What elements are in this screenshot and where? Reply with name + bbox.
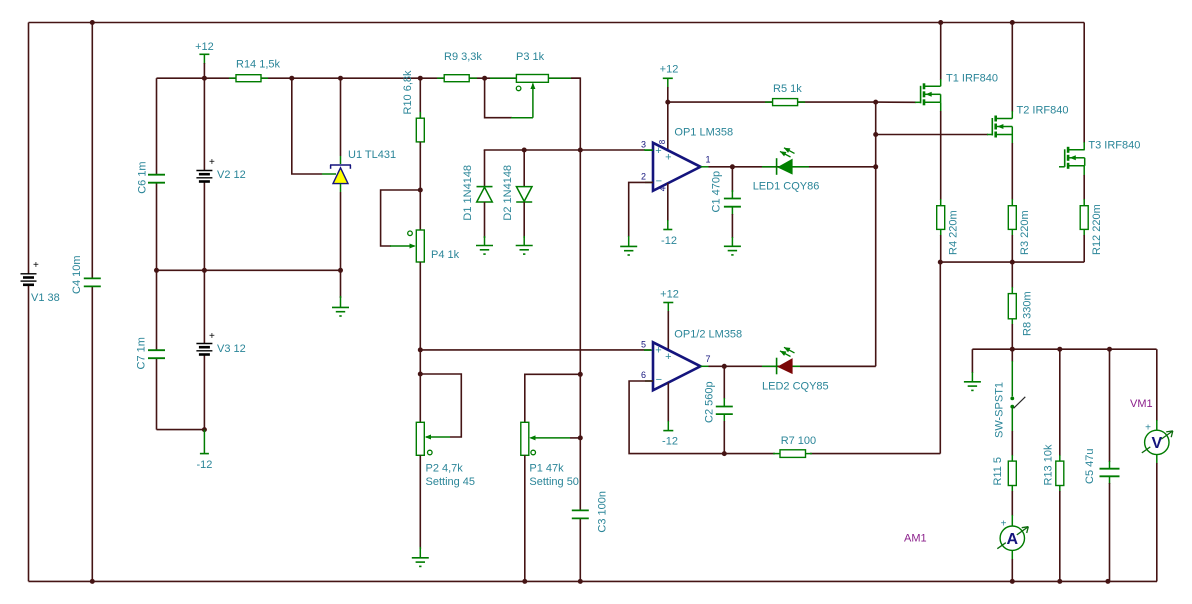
capacitor C6 1m [137,161,166,193]
svg-text:R14 1,5k: R14 1,5k [236,59,281,71]
potentiometer P3 1k [490,51,572,91]
resistor R7 100 [773,435,816,457]
wire: R13 column lower [1059,486,1061,582]
svg-text:C4 10m: C4 10m [71,255,83,294]
svg-text:LED2 CQY85: LED2 CQY85 [762,380,829,392]
svg-text:R13 10k: R13 10k [1043,444,1055,485]
svg-text:2: 2 [641,172,646,182]
wire: TL431 ref column [292,78,336,174]
capacitor C4 10m [71,255,101,294]
svg-text:R4 220m: R4 220m [948,210,960,255]
svg-text:OP1/2 LM358: OP1/2 LM358 [674,329,742,341]
capacitor C1 470p [711,171,741,213]
battery V1 38 [21,260,60,304]
transistor T1 IRF840 [921,73,998,106]
battery V3 12 [196,331,245,355]
op-amp OP1 LM358 [641,127,733,192]
svg-text:P1 47k: P1 47k [529,463,564,475]
wire: C5 column lower [1109,476,1111,581]
node: C6/C7 mid junction [154,268,159,273]
wire: D1 to ground [484,202,486,246]
node: AM1 bottom junction [1010,579,1015,584]
node: P2 wiper branch junction [418,372,423,377]
power -12 (OP1/2) [662,431,678,448]
node: D2 junction [522,148,527,153]
svg-text:8: 8 [658,139,667,144]
wire: P3 wiper loop [485,78,536,118]
node: C2 bottom junction [722,451,727,456]
node: C4 top junction [90,20,95,25]
svg-text:VM1: VM1 [1130,398,1153,410]
diode D1 1N4148 [462,165,493,221]
ground (D2) [516,246,533,255]
wire: V3 column [203,270,205,429]
node: rail C5 junction [1107,347,1112,352]
ground (output rail) [964,382,981,391]
svg-text:Setting 50: Setting 50 [529,476,579,488]
wire: R3 bottom [1011,230,1013,263]
node: T1 drain top [938,20,943,25]
svg-text:+: + [655,145,661,157]
svg-text:-12: -12 [661,235,677,247]
capacitor C3 100n [572,491,609,533]
wire: LED2 to gate bus [800,365,876,367]
node: T2 drain top [1010,20,1015,25]
svg-text:A: A [1007,531,1019,548]
wire: diode clamp line y=150 [484,150,652,186]
ground (OP1 pin2) [620,246,637,255]
wire: OP1/2 -12 lead [667,383,669,431]
node: R13 bottom junction [1057,579,1062,584]
wire: OP1 -12 lead [667,183,669,230]
wire: rail to ground [971,349,973,382]
ground (P2 bottom) [412,558,429,567]
node: gate bus top [873,100,878,105]
node: set column bottom [578,579,583,584]
wire: T1 drain up [940,23,942,87]
node: C4 bottom junction [90,579,95,584]
svg-text:+12: +12 [660,288,679,300]
resistor R4 220m [937,206,960,255]
svg-text:C6 1m: C6 1m [137,161,149,193]
wire: T1 gate lead [876,101,921,103]
svg-text:V1 38: V1 38 [31,292,60,304]
svg-text:+: + [665,351,671,363]
wire: mid rail y=270 [157,269,341,271]
resistor R10 6,8k [402,70,424,148]
label VM1 [1130,398,1153,410]
svg-text:C1 470p: C1 470p [711,171,723,213]
wire: switch to R11 [1011,431,1013,461]
node: P1 bottom junction [522,579,527,584]
svg-text:P2 4,7k: P2 4,7k [426,463,464,475]
potentiometer P2 4,7k [416,422,475,488]
wire: R5 line [668,101,876,103]
svg-text:+12: +12 [195,41,214,53]
svg-text:−: − [656,175,662,187]
svg-text:SW-SPST1: SW-SPST1 [994,382,1006,438]
ground (D1) [476,246,493,255]
svg-text:+: + [33,260,39,271]
svg-text:T3 IRF840: T3 IRF840 [1088,140,1140,152]
svg-text:+: + [655,345,661,357]
LED LED2 CQY85 [762,345,829,392]
svg-text:D2 1N4148: D2 1N4148 [502,165,514,221]
op-amp U1 TL431 shunt regulator [330,149,396,184]
wire: R4 bottom [940,230,942,263]
node: gate bus T3 [873,164,878,169]
power +12 (OP1) [660,64,679,103]
wire: T2 drain up [1011,23,1013,119]
capacitor C5 47u [1084,449,1120,484]
svg-text:R10 6,8k: R10 6,8k [402,70,414,115]
wire: pin5 line [420,349,653,351]
switch SW-SPST1 [994,349,1026,438]
label AM1 [904,533,927,545]
wire: R12 bottom [1083,230,1085,263]
potentiometer P4 1k [390,230,460,262]
svg-text:+: + [1145,423,1151,434]
svg-text:R5 1k: R5 1k [773,83,802,95]
svg-text:V3 12: V3 12 [217,343,246,355]
node: ref junction [289,76,294,81]
svg-text:+12: +12 [660,64,679,76]
svg-text:V: V [1151,435,1162,452]
svg-text:R12 220m: R12 220m [1091,204,1103,255]
resistor R5 1k [765,83,805,106]
svg-text:R3 220m: R3 220m [1019,210,1031,255]
svg-text:6: 6 [641,370,646,380]
battery V2 12 [196,157,245,182]
ground (C1) [724,246,741,255]
svg-text:R9 3,3k: R9 3,3k [444,51,482,63]
wire: R7 to sense rail [939,262,941,454]
svg-text:V2 12: V2 12 [217,169,246,181]
svg-text:5: 5 [641,339,646,349]
node: rail R13 junction [1057,347,1062,352]
op-amp OP1/2 LM358 [641,329,742,391]
wire: R10 to P4 node [419,142,421,230]
node: set column wiper [578,435,583,440]
node: anode junction [338,268,343,273]
wire: T3 drain up [1083,23,1085,150]
LED LED1 CQY86 [753,145,820,192]
node: sense-R8 junction [1010,260,1015,265]
wire: OP1 +12 into opamp [667,102,669,150]
svg-text:AM1: AM1 [904,533,927,545]
node: C2 top junction [722,364,727,369]
svg-text:T1 IRF840: T1 IRF840 [946,73,998,85]
wire: R14 supply rail y=78 [157,77,581,79]
wire: D2 column [523,150,525,187]
wire: C5 column upper [1109,349,1111,469]
wire: output node rail y=349 [972,348,1156,350]
power -12 (V3 bottom) [196,430,212,471]
wire: R7 feedback line [724,453,940,455]
resistor R14 1,5k [229,59,281,82]
svg-text:−: − [656,374,662,386]
wire: P4 bottom to P2 [419,262,421,422]
svg-text:C5 47u: C5 47u [1084,449,1096,484]
svg-text:C3 100n: C3 100n [597,491,609,533]
node: C5 bottom junction [1105,579,1110,584]
wire: OP1/2 output line [709,365,876,367]
capacitor C2 560p [704,381,733,423]
svg-text:Setting 45: Setting 45 [426,476,476,488]
svg-text:1: 1 [705,154,710,164]
wire: V2 column [203,63,205,270]
wire: pin6 feedback loop [629,381,724,454]
wire: R8 bottom lead [1011,319,1013,349]
power -12 (OP1) [661,230,677,248]
svg-text:LED1 CQY86: LED1 CQY86 [753,181,820,193]
wire: R10 top feed [419,78,421,118]
wire: T3 source down [1083,166,1085,206]
node: +12/R14 junction [202,76,207,81]
capacitor C7 1m [136,337,166,369]
wire: source sense rail y=262 [940,261,1084,263]
wire: T2 gate line [876,134,993,136]
wire: T2 source down [1011,135,1013,206]
svg-text:+: + [665,152,671,164]
node: V3 bottom junction [202,427,207,432]
wire: P1 bottom [524,455,526,581]
node: V2/V3 mid junction [202,268,207,273]
wire: left border (interrupted by V1 battery) [28,23,30,582]
wire: T1 source down [940,102,942,205]
node: pin5 branch junction [418,347,423,352]
svg-text:-12: -12 [662,436,678,448]
wire: VM1 column [1156,349,1158,581]
node: C1 junction [730,164,735,169]
power +12 (V2 top) [195,41,214,64]
wire: OP1 output line y=166.5 [709,166,876,168]
svg-text:R8 330m: R8 330m [1022,291,1034,336]
resistor R11 5 [992,457,1016,486]
node: cathode junction [338,76,343,81]
wire: R8 top lead [1011,262,1013,294]
resistor R3 220m [1008,206,1031,255]
wire: P1 top link [525,374,581,422]
svg-text:U1 TL431: U1 TL431 [348,149,396,161]
wire: T3 gate lead green [1059,166,1065,168]
svg-text:+: + [209,157,215,168]
svg-text:OP1 LM358: OP1 LM358 [674,127,733,139]
wire: TL431 cathode column [340,78,342,164]
transistor T3 IRF840 [1065,140,1141,169]
wire: C2 column upper [723,366,725,406]
voltmeter VM1 [1142,423,1173,455]
svg-text:-12: -12 [196,459,212,471]
svg-text:P4 1k: P4 1k [431,249,460,261]
node: set column P1-top [578,372,583,377]
wire: lower -12 link [157,429,205,431]
svg-text:D1 1N4148: D1 1N4148 [462,165,474,221]
svg-text:C7 1m: C7 1m [136,337,148,369]
node: gate bus T2 [873,132,878,137]
svg-text:+: + [209,331,215,342]
ammeter AM1 [997,518,1028,550]
wire: P3 out to set-node column [571,78,580,510]
wire: P4 wiper loop [381,190,421,246]
resistor R8 330m [1008,291,1033,336]
svg-text:T2 IRF840: T2 IRF840 [1017,105,1069,117]
node: rail R11 junction [1010,347,1015,352]
node: sense-R7 junction [938,260,943,265]
diode D2 1N4148 [502,165,532,221]
wire: set-node column lower [579,518,581,581]
wire: C6/C7 column [156,78,158,429]
node: R9/P3 junction [482,76,487,81]
node: R5 left junction [665,100,670,105]
svg-text:+: + [1001,518,1007,529]
wire: C4 column [91,23,93,582]
node: set column top of D-line [578,148,583,153]
node: P4 top node [418,188,423,193]
wire: R13 column upper [1059,349,1061,461]
wire: OP1 pin2 to ground [629,182,653,246]
ground (TL431 anode) [332,270,349,316]
svg-text:7: 7 [705,354,710,364]
wire: AM1 to bottom [1011,550,1013,581]
wire: C1 to ground [731,207,733,247]
wire: R11 to AM1 [1011,486,1013,527]
resistor R9 3,3k [437,51,482,82]
potentiometer P1 47k [521,422,581,488]
resistor R12 220m [1080,204,1103,255]
svg-text:R11 5: R11 5 [992,457,1004,486]
svg-text:P3 1k: P3 1k [516,51,545,63]
wire: gate bus column [875,102,877,366]
wire: C1 column [731,167,733,199]
wire: D2 to ground [523,202,525,246]
wire: top border [29,22,1085,24]
transistor T2 IRF840 [992,105,1068,138]
svg-text:C2 560p: C2 560p [704,381,716,423]
node: R10 top junction [418,76,423,81]
wire: P2 to ground [419,455,421,558]
wire: C2 column lower [723,414,725,454]
svg-text:3: 3 [641,140,646,150]
wire: P2 wiper loop [420,374,461,437]
wire: TL431 anode [340,184,342,270]
resistor R13 10k [1043,444,1064,485]
svg-text:R7 100: R7 100 [781,435,816,447]
power +12 (OP1/2) [660,288,679,350]
wire: bottom border [29,580,1158,582]
